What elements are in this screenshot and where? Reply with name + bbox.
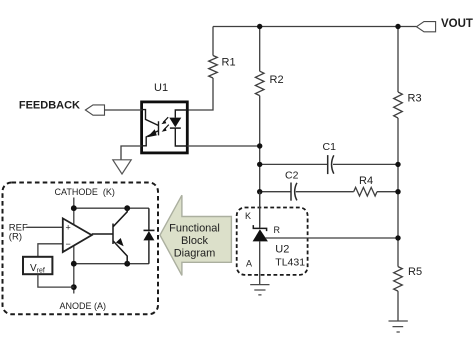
wire: C2 / R4 branch xyxy=(260,191,398,193)
wire: internal top line xyxy=(74,207,149,209)
svg-text:ANODE (A): ANODE (A) xyxy=(60,301,107,311)
transistor Q1 (pass transistor) xyxy=(92,208,128,264)
ground below R5 xyxy=(389,321,408,332)
emitter arrowhead xyxy=(116,238,124,246)
wire: R1 branch vertical + lead to U1 xyxy=(187,27,213,111)
wire: C1 branch xyxy=(260,163,398,165)
wire: TL431 reference to right rail xyxy=(266,237,399,239)
node: junction U1/left rail xyxy=(257,143,262,148)
svg-text:TL431: TL431 xyxy=(275,257,305,269)
TL431 U2 symbol xyxy=(259,192,261,229)
svg-text:R5: R5 xyxy=(408,266,422,278)
wire: Vref to anode rail xyxy=(38,274,74,287)
wire: - input to Vref xyxy=(38,244,63,257)
wire: internal cathode rail xyxy=(73,208,75,293)
callout arrow: Functional Block Diagram xyxy=(160,195,231,275)
svg-text:R4: R4 xyxy=(359,175,373,187)
svg-text:R: R xyxy=(274,225,281,235)
node: internal dots xyxy=(71,205,77,211)
svg-text:Block: Block xyxy=(181,235,208,247)
wire: cathode stub xyxy=(73,198,75,209)
wire: internal bottom line xyxy=(74,263,149,265)
light arrows from LED to transistor xyxy=(163,117,168,122)
wire: right rail x=398 top to R5 xyxy=(397,27,399,267)
resistor R4 xyxy=(354,187,377,196)
resistor R3 xyxy=(394,92,403,118)
dashed box U2 TL431 xyxy=(237,208,308,275)
svg-text:C1: C1 xyxy=(323,141,337,153)
resistor R5 xyxy=(394,267,403,292)
capacitor C2 xyxy=(290,183,292,201)
wire: top rail from R1 top to VOUT connector xyxy=(213,26,417,28)
node: junction top rail / right rail xyxy=(395,24,400,29)
emitter arrowhead of phototransistor xyxy=(147,129,157,137)
svg-text:CATHODE (K): CATHODE (K) xyxy=(55,187,115,197)
node: ref / right rail xyxy=(395,235,400,240)
svg-text:R2: R2 xyxy=(270,74,284,86)
svg-text:−: − xyxy=(66,239,71,249)
node: C1 right xyxy=(395,162,400,167)
diode D1 (cathode-anode protection) xyxy=(148,208,150,264)
Vref box xyxy=(23,257,52,274)
dashed box functional block diagram xyxy=(3,183,159,315)
svg-text:(R): (R) xyxy=(9,232,22,243)
svg-text:C2: C2 xyxy=(285,170,299,182)
resistor R2 xyxy=(255,71,264,95)
connector FEEDBACK flag xyxy=(85,105,104,115)
wire: U1 pin 3 (collector side) to left rail xyxy=(187,145,259,147)
wire: U1 pin 2 (emitter) to ground xyxy=(121,146,142,160)
node: C2 left xyxy=(257,189,262,194)
resistor R1 xyxy=(209,56,218,79)
svg-text:Diagram: Diagram xyxy=(174,248,216,260)
wire: left rail x=259.7 top to TL431 cathode xyxy=(259,27,261,228)
svg-text:R3: R3 xyxy=(408,93,422,105)
node: R4 right xyxy=(395,189,400,194)
wire: R5 bottom to ground xyxy=(397,291,399,321)
wire: REF to op-amp + input xyxy=(26,226,63,228)
svg-text:U1: U1 xyxy=(154,82,168,94)
ground below TL431 xyxy=(250,285,269,295)
ground triangle below U1 xyxy=(113,160,131,174)
node: junction top rail / left rail xyxy=(257,24,262,29)
svg-text:VOUT: VOUT xyxy=(441,18,473,30)
node: C1 left xyxy=(257,162,262,167)
svg-text:R1: R1 xyxy=(222,57,236,69)
op-amp U_a (error amplifier) xyxy=(63,218,92,252)
capacitor C1 xyxy=(327,155,329,174)
svg-text:+: + xyxy=(66,223,71,233)
svg-text:U2: U2 xyxy=(275,243,289,255)
connector VOUT flag xyxy=(417,22,436,32)
svg-text:FEEDBACK: FEEDBACK xyxy=(19,99,80,111)
phototransistor inside U1 xyxy=(142,110,159,146)
svg-text:Functional: Functional xyxy=(169,223,220,235)
svg-text:A: A xyxy=(246,259,252,269)
wire: FEEDBACK flag to U1 pin 1 xyxy=(105,109,142,111)
svg-text:K: K xyxy=(245,211,251,221)
optocoupler U1 box xyxy=(142,102,188,153)
LED inside U1 xyxy=(175,110,187,146)
wire: TL431 anode down to ground xyxy=(259,241,261,284)
